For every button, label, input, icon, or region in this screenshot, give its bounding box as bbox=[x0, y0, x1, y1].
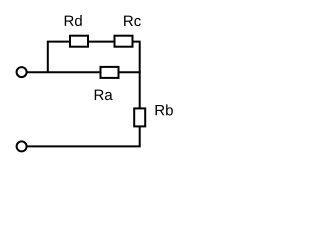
label Rd bbox=[65, 15, 82, 26]
resistor Rc bbox=[115, 36, 133, 47]
resistor Rd bbox=[70, 36, 88, 47]
terminal bottom-left bbox=[17, 141, 27, 151]
resistor Ra bbox=[101, 67, 119, 78]
label Rc bbox=[124, 16, 141, 26]
label Rb bbox=[156, 104, 173, 115]
resistor Rb bbox=[134, 108, 145, 126]
label Ra bbox=[95, 90, 113, 100]
wire outer loop: left branch up, top rail, right rail, bottom rail bbox=[27, 42, 140, 147]
terminal top-left bbox=[17, 67, 27, 77]
wire middle rail bbox=[27, 71, 141, 73]
